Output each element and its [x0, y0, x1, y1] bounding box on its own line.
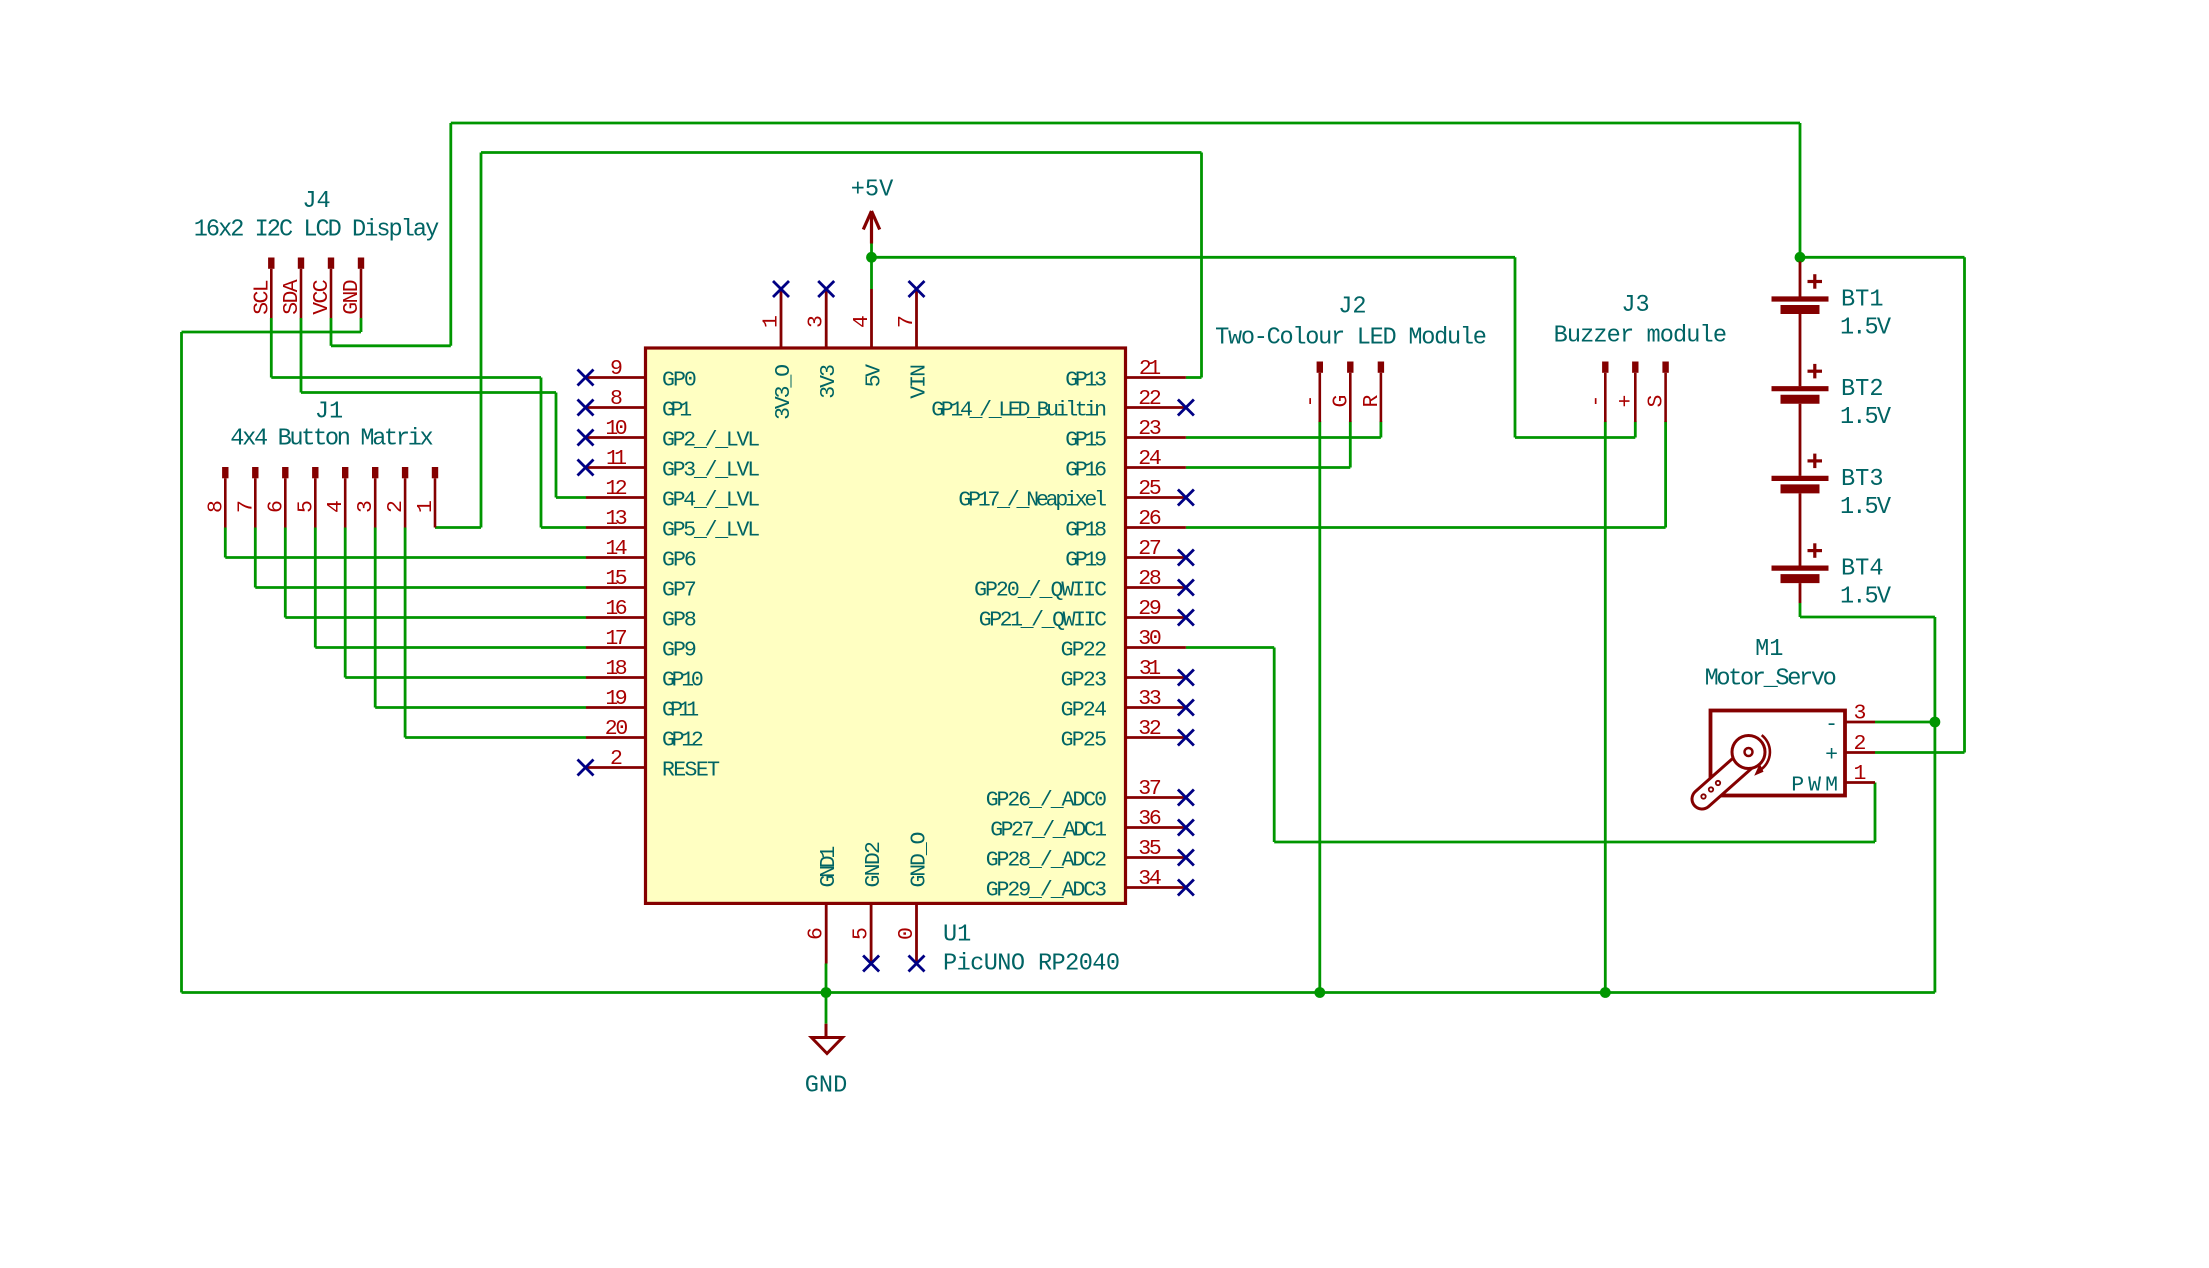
svg-text:5: 5 — [850, 927, 874, 940]
svg-text:1.5V: 1.5V — [1840, 494, 1892, 521]
svg-text:BT4: BT4 — [1841, 556, 1883, 583]
svg-text:2: 2 — [1854, 732, 1867, 756]
svg-text:GP14_/_LED_Builtin: GP14_/_LED_Builtin — [931, 399, 1107, 423]
svg-text:SCL: SCL — [250, 279, 274, 314]
svg-text:25: 25 — [1138, 477, 1162, 501]
svg-text:4: 4 — [850, 315, 874, 328]
svg-text:BT1: BT1 — [1841, 287, 1883, 314]
svg-text:G: G — [1329, 395, 1353, 408]
svg-text:3: 3 — [1854, 702, 1867, 726]
svg-text:3V3: 3V3 — [817, 364, 841, 399]
svg-text:14: 14 — [605, 537, 627, 561]
svg-text:20: 20 — [605, 717, 629, 741]
svg-text:GP27_/_ADC1: GP27_/_ADC1 — [990, 819, 1107, 843]
svg-text:31: 31 — [1139, 657, 1161, 681]
svg-text:M1: M1 — [1755, 636, 1783, 663]
svg-text:28: 28 — [1138, 567, 1162, 591]
svg-text:GP4_/_LVL: GP4_/_LVL — [662, 489, 760, 513]
svg-text:GP16: GP16 — [1065, 459, 1107, 483]
svg-text:22: 22 — [1138, 387, 1162, 411]
svg-text:GP3_/_LVL: GP3_/_LVL — [662, 459, 760, 483]
svg-text:6: 6 — [805, 927, 829, 940]
svg-text:27: 27 — [1138, 537, 1162, 561]
svg-text:GP5_/_LVL: GP5_/_LVL — [662, 519, 760, 543]
svg-text:30: 30 — [1138, 627, 1162, 651]
svg-text:Motor_Servo: Motor_Servo — [1705, 666, 1837, 693]
svg-text:1.5V: 1.5V — [1840, 584, 1892, 611]
svg-text:GP6: GP6 — [662, 549, 697, 573]
svg-text:GP8: GP8 — [662, 609, 697, 633]
svg-text:GP20_/_QWIIC: GP20_/_QWIIC — [974, 579, 1107, 603]
svg-text:18: 18 — [605, 657, 627, 681]
svg-text:+: + — [1614, 395, 1638, 408]
svg-text:GP26_/_ADC0: GP26_/_ADC0 — [986, 789, 1107, 813]
svg-text:PWM: PWM — [1791, 774, 1838, 798]
svg-text:19: 19 — [605, 687, 627, 711]
svg-text:26: 26 — [1138, 507, 1162, 531]
svg-text:33: 33 — [1138, 687, 1162, 711]
svg-text:4x4 Button Matrix: 4x4 Button Matrix — [230, 426, 433, 453]
svg-text:RESET: RESET — [662, 759, 720, 783]
svg-text:GP29_/_ADC3: GP29_/_ADC3 — [986, 879, 1107, 903]
svg-text:GND1: GND1 — [817, 846, 841, 888]
svg-text:15: 15 — [605, 567, 627, 591]
svg-text:23: 23 — [1138, 417, 1162, 441]
svg-text:1: 1 — [760, 315, 784, 328]
svg-text:GP21_/_QWIIC: GP21_/_QWIIC — [979, 609, 1107, 633]
svg-text:32: 32 — [1138, 717, 1162, 741]
svg-text:GP12: GP12 — [662, 729, 704, 753]
svg-text:GP13: GP13 — [1065, 369, 1107, 393]
svg-text:36: 36 — [1138, 807, 1162, 831]
svg-text:3: 3 — [354, 500, 378, 513]
svg-text:GND_O: GND_O — [907, 832, 931, 888]
svg-text:-: - — [1299, 395, 1323, 408]
svg-text:35: 35 — [1138, 837, 1162, 861]
svg-text:10: 10 — [605, 417, 627, 441]
svg-text:+5V: +5V — [851, 177, 894, 204]
svg-text:GP15: GP15 — [1065, 429, 1107, 453]
svg-text:-: - — [1584, 395, 1608, 408]
svg-text:GP9: GP9 — [662, 639, 697, 663]
svg-text:GP10: GP10 — [662, 669, 704, 693]
svg-text:GP28_/_ADC2: GP28_/_ADC2 — [986, 849, 1107, 873]
svg-text:BT3: BT3 — [1841, 466, 1883, 493]
svg-text:GND2: GND2 — [862, 841, 886, 887]
svg-text:1: 1 — [414, 500, 438, 513]
svg-text:37: 37 — [1138, 777, 1162, 801]
svg-text:0: 0 — [895, 927, 919, 940]
svg-text:-: - — [1825, 713, 1838, 737]
svg-text:Buzzer module: Buzzer module — [1554, 323, 1727, 350]
svg-text:GP7: GP7 — [662, 579, 697, 603]
svg-text:GP18: GP18 — [1065, 519, 1107, 543]
svg-text:16: 16 — [605, 597, 627, 621]
svg-text:SDA: SDA — [280, 279, 304, 314]
svg-text:2: 2 — [610, 747, 623, 771]
svg-text:3: 3 — [805, 315, 829, 328]
svg-text:9: 9 — [610, 357, 623, 381]
svg-text:BT2: BT2 — [1841, 376, 1883, 403]
svg-text:VIN: VIN — [907, 364, 931, 399]
svg-text:GP0: GP0 — [662, 369, 697, 393]
svg-text:6: 6 — [264, 500, 288, 513]
svg-text:1.5V: 1.5V — [1840, 315, 1892, 342]
svg-text:GP2_/_LVL: GP2_/_LVL — [662, 429, 760, 453]
svg-text:7: 7 — [234, 500, 258, 513]
svg-text:2: 2 — [384, 500, 408, 513]
svg-text:16x2 I2C LCD Display: 16x2 I2C LCD Display — [194, 216, 440, 243]
svg-text:29: 29 — [1138, 597, 1162, 621]
svg-text:GND: GND — [805, 1073, 847, 1100]
svg-text:GP25: GP25 — [1061, 729, 1107, 753]
svg-text:J1: J1 — [315, 399, 343, 426]
svg-text:S: S — [1645, 395, 1669, 408]
svg-text:R: R — [1360, 394, 1384, 407]
svg-text:GP19: GP19 — [1065, 549, 1107, 573]
svg-text:34: 34 — [1138, 867, 1162, 891]
svg-text:5: 5 — [294, 500, 318, 513]
svg-text:5V: 5V — [862, 364, 886, 387]
svg-text:J3: J3 — [1621, 292, 1649, 319]
svg-text:GP23: GP23 — [1061, 669, 1107, 693]
svg-text:GP22: GP22 — [1061, 639, 1107, 663]
svg-text:1: 1 — [1854, 762, 1867, 786]
svg-text:GP17_/_Neapixel: GP17_/_Neapixel — [958, 489, 1107, 513]
svg-text:3V3_O: 3V3_O — [772, 364, 796, 420]
svg-text:GP11: GP11 — [662, 699, 699, 723]
svg-text:24: 24 — [1138, 447, 1162, 471]
svg-text:GP1: GP1 — [662, 399, 692, 423]
svg-text:17: 17 — [605, 627, 627, 651]
svg-text:GND: GND — [340, 279, 364, 314]
svg-text:8: 8 — [610, 387, 623, 411]
svg-text:J4: J4 — [302, 188, 330, 215]
svg-text:U1: U1 — [943, 922, 971, 949]
svg-text:21: 21 — [1139, 357, 1161, 381]
svg-text:PicUNO RP2040: PicUNO RP2040 — [943, 951, 1120, 978]
svg-text:4: 4 — [324, 500, 348, 513]
svg-text:Two-Colour LED Module: Two-Colour LED Module — [1215, 325, 1487, 352]
svg-text:+: + — [1825, 744, 1838, 768]
svg-text:11: 11 — [606, 447, 627, 471]
svg-text:13: 13 — [605, 507, 627, 531]
svg-text:VCC: VCC — [310, 279, 334, 314]
svg-text:J2: J2 — [1338, 294, 1366, 321]
svg-text:8: 8 — [204, 500, 228, 513]
svg-text:1.5V: 1.5V — [1840, 404, 1892, 431]
svg-text:12: 12 — [605, 477, 627, 501]
svg-text:GP24: GP24 — [1061, 699, 1107, 723]
svg-text:7: 7 — [895, 315, 919, 328]
